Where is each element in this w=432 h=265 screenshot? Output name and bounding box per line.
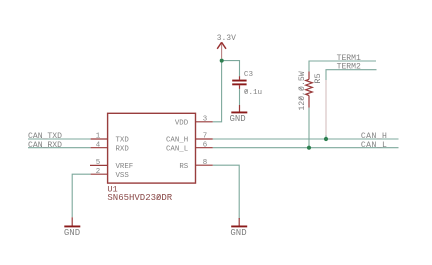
svg-text:GND: GND bbox=[230, 114, 246, 124]
svg-text:CAN_L: CAN_L bbox=[166, 145, 188, 153]
wire 3.3V node to C3 bbox=[222, 61, 240, 77]
wire VDD to 3.3V bbox=[213, 61, 222, 122]
svg-text:7: 7 bbox=[203, 133, 207, 141]
svg-text:4: 4 bbox=[96, 141, 101, 149]
pin 3 VDD stub bbox=[196, 121, 213, 123]
svg-text:120,0.5W: 120,0.5W bbox=[298, 71, 307, 110]
pin 2 VSS stub bbox=[91, 173, 108, 175]
ground below RS wire bbox=[231, 218, 247, 226]
svg-text:CAN_H: CAN_H bbox=[166, 137, 188, 145]
svg-text:VDD: VDD bbox=[175, 119, 189, 127]
svg-text:6: 6 bbox=[203, 141, 207, 149]
label R5 (rotated) bbox=[313, 73, 323, 83]
IC U1 SN65HVD230DR bbox=[108, 113, 196, 183]
svg-text:CAN_RXD: CAN_RXD bbox=[28, 141, 62, 150]
junction CAN_L / R5 bbox=[307, 146, 311, 150]
capacitor C3 bbox=[232, 76, 246, 89]
pin 8 RS stub bbox=[196, 164, 213, 166]
svg-text:2: 2 bbox=[96, 168, 100, 176]
pin 7 CAN_H stub bbox=[196, 138, 213, 140]
wire CAN_RXD to pin 4 bbox=[28, 147, 91, 149]
svg-text:CAN_TXD: CAN_TXD bbox=[28, 132, 62, 141]
supply 3.3V bbox=[217, 42, 226, 58]
svg-text:C3: C3 bbox=[244, 71, 254, 79]
svg-text:3: 3 bbox=[203, 116, 207, 124]
svg-text:CAN_L: CAN_L bbox=[361, 141, 387, 150]
wire pin 6 to CAN_L bbox=[213, 147, 399, 149]
pin 5 VREF stub bbox=[90, 164, 108, 166]
svg-text:GND: GND bbox=[230, 228, 246, 238]
svg-text:3.3V: 3.3V bbox=[217, 34, 236, 43]
svg-text:RS: RS bbox=[179, 163, 188, 171]
svg-text:0.1u: 0.1u bbox=[244, 89, 262, 97]
wire TERM2 drop to CAN_H bbox=[325, 136, 327, 140]
value 120,0.5W (rotated) bbox=[298, 71, 307, 110]
wire TERM1 bbox=[309, 61, 376, 72]
pin 4 RXD stub bbox=[91, 147, 108, 149]
svg-text:1: 1 bbox=[96, 133, 101, 141]
wire RS to ground bbox=[213, 165, 239, 219]
ground below VSS wire bbox=[64, 217, 80, 226]
value SN65HVD230DR bbox=[107, 193, 172, 203]
wire CAN_TXD to pin 1 bbox=[28, 138, 91, 140]
junction 3.3V node bbox=[220, 59, 224, 63]
wire C3 to ground bbox=[239, 89, 241, 105]
svg-text:8: 8 bbox=[203, 159, 207, 167]
wire R5 to CAN_L bbox=[308, 108, 310, 148]
svg-text:RXD: RXD bbox=[116, 145, 130, 153]
ground below C3 bbox=[231, 105, 247, 112]
svg-text:TXD: TXD bbox=[116, 137, 130, 145]
svg-text:VREF: VREF bbox=[116, 163, 134, 171]
wire pin 7 to CAN_H bbox=[213, 138, 399, 140]
svg-text:CAN_H: CAN_H bbox=[361, 132, 387, 141]
pin 1 TXD stub bbox=[91, 138, 108, 140]
pin lead TERM2 (light) bbox=[325, 80, 327, 136]
svg-text:TERM2: TERM2 bbox=[337, 63, 361, 72]
resistor R5 bbox=[306, 72, 313, 108]
svg-text:SN65HVD230DR: SN65HVD230DR bbox=[107, 193, 172, 203]
svg-text:TERM1: TERM1 bbox=[337, 54, 361, 63]
junction CAN_H / TERM2 bbox=[324, 137, 328, 141]
wire TERM2 bbox=[326, 70, 377, 80]
svg-text:R5: R5 bbox=[313, 73, 323, 83]
svg-text:5: 5 bbox=[96, 159, 100, 167]
value 0.1u bbox=[244, 89, 262, 97]
pin 6 CAN_L stub bbox=[196, 147, 213, 149]
svg-text:VSS: VSS bbox=[116, 172, 130, 180]
svg-text:GND: GND bbox=[64, 228, 80, 238]
wire VSS to ground bbox=[72, 174, 90, 217]
